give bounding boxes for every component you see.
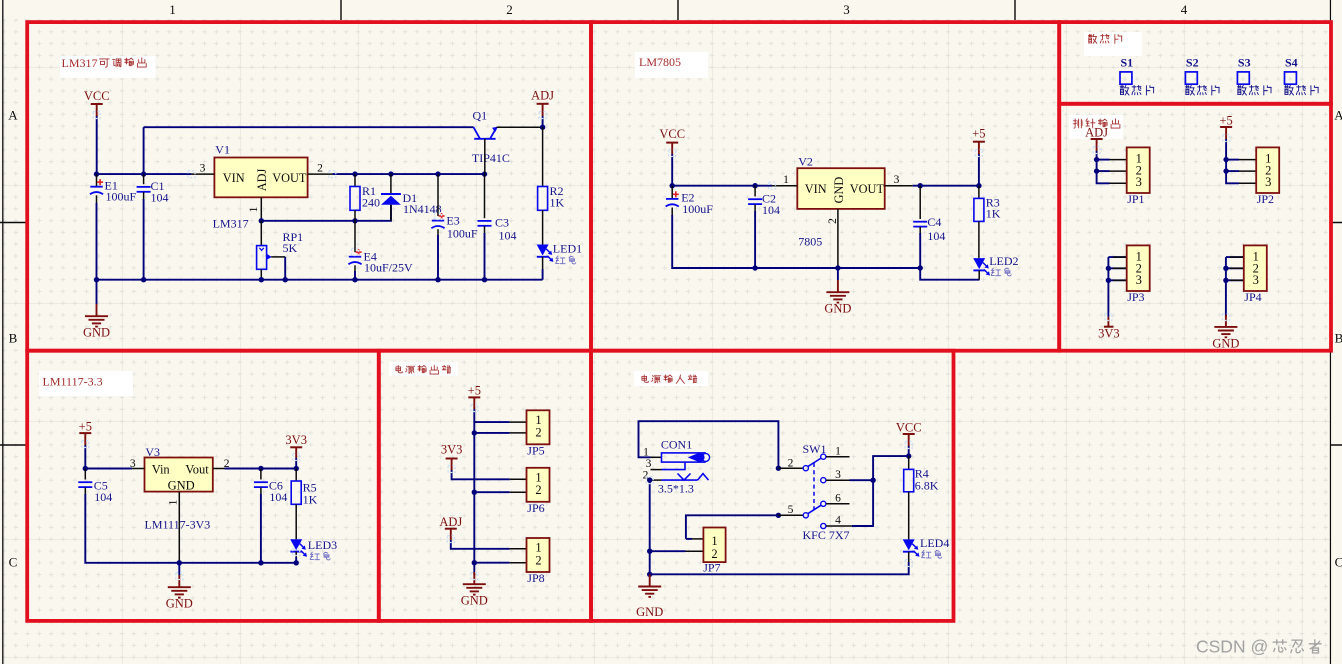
wire ground rail section2 (672, 267, 920, 269)
sheet border right edge (1330, 0, 1332, 664)
svg-text:KFC 7X7: KFC 7X7 (803, 528, 850, 542)
wire ground rail section5 (179, 562, 296, 564)
svg-text:104: 104 (762, 203, 780, 217)
power 3V3 section6 (446, 458, 458, 460)
capacitor C2 (754, 186, 756, 197)
wire ADJ to JP8 pin1 (451, 540, 510, 549)
wire VIN rail section2 (672, 185, 772, 187)
svg-text:3V3: 3V3 (441, 443, 463, 457)
capacitor C4 (919, 186, 921, 219)
svg-text:C: C (1335, 555, 1342, 570)
svg-text:7805: 7805 (798, 235, 822, 249)
node JP3 pin3 junction (1106, 278, 1111, 283)
connector JP8 (510, 548, 527, 550)
section title LM7805 (635, 52, 708, 78)
wire 3V3 stem (295, 458, 297, 469)
node ADJ rail junction (540, 125, 545, 130)
capacitor E1 (96, 174, 98, 186)
wire ground rail section1 (97, 279, 543, 281)
wire JP4 pin2 link (1226, 267, 1244, 269)
wire GND drop section2 (837, 268, 839, 280)
svg-text:1: 1 (248, 206, 260, 212)
svg-text:240: 240 (362, 195, 380, 209)
wire collector top rail (144, 126, 474, 128)
wire JP1 pin2 link (1097, 170, 1110, 172)
svg-text:S3: S3 (1238, 56, 1251, 70)
node V2 gnd junction (835, 265, 840, 270)
node ADJ-R1 junction (352, 218, 357, 223)
svg-text:E3: E3 (446, 213, 459, 227)
svg-text:Q1: Q1 (473, 109, 488, 123)
wire GND bus JP4 (1225, 257, 1227, 317)
svg-text:100uF: 100uF (682, 202, 713, 216)
connector JP7 (692, 538, 703, 540)
svg-text:GND: GND (636, 605, 663, 619)
resistor R5 1K (295, 469, 297, 482)
wire LED4 to ground rail (650, 562, 909, 574)
svg-text:ADJ: ADJ (439, 515, 462, 529)
pin 3 CON1 sleeve (651, 469, 662, 471)
svg-text:GND: GND (166, 597, 193, 611)
wire +5 stem section5 (84, 445, 86, 469)
wire JP8 pin2 link (474, 562, 510, 564)
node JP8 pin2 junction (472, 560, 477, 565)
wire C3 to ground rail (484, 233, 486, 280)
wire +5 bus JP2 (1226, 139, 1239, 183)
red frame LM317 section (27, 22, 591, 351)
node JP3 pin2 junction (1106, 266, 1111, 271)
pin 1 V2 (772, 185, 797, 187)
svg-text:JP4: JP4 (1244, 290, 1261, 304)
svg-text:Vin: Vin (152, 463, 171, 477)
svg-text:A: A (8, 108, 18, 123)
svg-text:LED4: LED4 (920, 536, 949, 550)
svg-text:GND: GND (1212, 336, 1239, 350)
svg-text:1: 1 (835, 446, 841, 458)
svg-text:V3: V3 (145, 445, 160, 459)
svg-text:LED3: LED3 (308, 538, 337, 552)
node VOUT-R1 junction (352, 171, 357, 176)
wire JP3 pin3 link (1108, 279, 1126, 281)
wire VCC stem section7 (908, 446, 910, 456)
wire Vout rail section5 (225, 468, 297, 470)
wire SW1 pin5 to JP7 pin1 (686, 515, 779, 539)
svg-text:104: 104 (927, 229, 945, 243)
node VCC-E2 junction (670, 183, 675, 188)
svg-text:2: 2 (506, 2, 513, 17)
wire E4 to ground rail (354, 271, 356, 280)
connector JP1 (1110, 159, 1127, 161)
red frame pin-header output section (1059, 104, 1331, 351)
resistor R1 240 (354, 174, 356, 186)
svg-text:C4: C4 (927, 215, 941, 229)
node SW1 pin3 tap junction (870, 478, 875, 483)
pin 6 SW1 (821, 501, 826, 506)
section title heatsink (1084, 32, 1142, 56)
svg-text:LM317: LM317 (62, 56, 98, 70)
wire 3V3 bus JP3 (1107, 257, 1109, 317)
ground GND section1 (85, 304, 108, 327)
top ruler zone ticks (341, 0, 1015, 20)
wire 3V3 to JP6 pin1 (452, 470, 510, 479)
svg-text:TIP41C: TIP41C (472, 151, 510, 165)
pin 1 SW1 (821, 454, 826, 459)
LED2 red (978, 221, 980, 258)
capacitor E4 (354, 221, 356, 252)
svg-text:GND: GND (83, 326, 110, 340)
connector JP3 (1113, 256, 1127, 258)
svg-text:5K: 5K (283, 241, 298, 255)
capacitor C6 (260, 469, 262, 480)
svg-text:2: 2 (535, 553, 541, 567)
svg-text:JP6: JP6 (527, 501, 544, 515)
node C2 junction top (752, 183, 757, 188)
wire VCC stem (96, 116, 98, 174)
node SW1 pin2 junction (776, 466, 781, 471)
node ADJ-RP1 junction (259, 218, 264, 223)
wire ADJ bus JP1 (1097, 151, 1110, 183)
svg-text:2: 2 (788, 458, 794, 470)
svg-text:3: 3 (200, 163, 206, 175)
red frame power input section (591, 351, 954, 621)
node +5 R3 junction (976, 183, 981, 188)
wire E3 to ground rail (437, 235, 439, 280)
svg-text:3: 3 (1253, 273, 1259, 287)
node VOUT-E3 junction (435, 171, 440, 176)
wire CON1 pin1 to SW1 pin2 (639, 421, 779, 468)
power ADJ JP1 (1091, 138, 1103, 140)
pin 2 V1 (308, 173, 333, 175)
regulator V1 LM317 (214, 158, 307, 198)
node C4 ground junction (918, 265, 923, 270)
node SW1 pin5 junction (776, 513, 781, 518)
power 3V3 below JP3 (1107, 317, 1109, 327)
svg-text:1K: 1K (986, 206, 1001, 220)
svg-text:JP1: JP1 (1127, 192, 1144, 206)
svg-text:VCC: VCC (84, 89, 110, 103)
hotspot markers (93, 112, 100, 119)
LED4 red (908, 492, 910, 540)
svg-text:6.8K: 6.8K (915, 479, 939, 493)
wire C4 to ground rail and LED2 return (920, 233, 979, 280)
node C6 junction (258, 466, 263, 471)
svg-text:LM1117-3V3: LM1117-3V3 (145, 518, 211, 532)
svg-text:2: 2 (827, 218, 839, 224)
svg-text:S4: S4 (1285, 56, 1298, 70)
node 3V3 R5 junction (294, 466, 299, 471)
wire JP2 pin1 link (1226, 159, 1239, 161)
svg-text:JP3: JP3 (1127, 290, 1144, 304)
wire RP1 wiper to ground rail (284, 257, 286, 280)
wire JP7 pin2 link (650, 550, 686, 552)
wire GND drop section5 (178, 563, 180, 575)
svg-text:3: 3 (843, 2, 850, 17)
wire +5 stem section2 (978, 154, 980, 186)
svg-text:B: B (1335, 331, 1342, 346)
resistor R3 1K (978, 186, 980, 199)
wire JP5 pin2 link (474, 432, 510, 434)
wire top rail to C1 junction (143, 127, 145, 174)
section title pin header output (1069, 115, 1123, 139)
svg-text:GND: GND (824, 302, 851, 316)
node gnd junctions section1 (94, 277, 99, 282)
wire C6 to ground rail (260, 494, 262, 563)
svg-text:104: 104 (499, 228, 517, 242)
wire E1 to ground rail (96, 203, 98, 280)
svg-text:3V3: 3V3 (1098, 326, 1120, 340)
svg-text:S1: S1 (1121, 56, 1134, 70)
svg-text:+5: +5 (1219, 114, 1232, 128)
svg-text:3V3: 3V3 (285, 433, 307, 447)
node gnd junctions section5 (177, 560, 182, 565)
svg-text:S2: S2 (1186, 56, 1199, 70)
LED3 red (295, 504, 297, 539)
red frame LM7805 section (591, 22, 1059, 351)
power VCC section7 (903, 433, 915, 435)
wire C5 to ground rail (85, 494, 179, 563)
power ADJ section6 (445, 528, 457, 530)
svg-text:3: 3 (1136, 273, 1142, 287)
pin 1 V1 ADJ (260, 197, 262, 221)
svg-text:VCC: VCC (896, 421, 922, 435)
svg-text:A: A (1334, 108, 1342, 123)
wire CON1 pin2 to ground (649, 480, 651, 574)
connector JP2 (1239, 159, 1256, 161)
svg-text:5: 5 (788, 504, 794, 516)
wire Vin rail section5 (85, 468, 132, 470)
section title power output port (389, 362, 458, 376)
pin 4 SW1 (821, 523, 826, 528)
diode D1 1N4148 (390, 174, 392, 194)
capacitor C1 (143, 174, 145, 184)
node JP1 pin1 junction (1094, 157, 1099, 162)
connector JP5 (510, 421, 527, 423)
node JP5 pin2 junction (472, 430, 477, 435)
svg-text:V2: V2 (798, 155, 813, 169)
svg-text:4: 4 (835, 515, 841, 527)
pin 5 SW1 (778, 514, 803, 516)
capacitor E3 (437, 174, 439, 216)
switch link dashed SW1 (813, 463, 815, 510)
svg-text:2: 2 (535, 483, 541, 497)
svg-text:4: 4 (1181, 2, 1188, 17)
svg-text:104: 104 (269, 490, 287, 504)
svg-text:LED2: LED2 (989, 254, 1018, 268)
wire JP2 pin2 link (1226, 170, 1239, 172)
svg-text:3: 3 (130, 458, 136, 470)
regulator V2 7805 (797, 168, 884, 209)
power +5 section2 (973, 141, 985, 143)
power +5 JP2 (1220, 126, 1232, 128)
svg-text:100uF: 100uF (106, 190, 137, 204)
node JP4 pin3 junction (1223, 278, 1228, 283)
svg-text:3: 3 (1136, 175, 1142, 189)
svg-text:1K: 1K (550, 195, 565, 209)
node JP1 pin2 junction (1094, 168, 1099, 173)
wire C2 to ground rail (754, 211, 756, 268)
svg-text:2: 2 (535, 426, 541, 440)
svg-text:100uF: 100uF (447, 226, 478, 240)
pin 3 V2 (885, 185, 913, 187)
ground GND below JP4 (1214, 315, 1237, 338)
pin 3 V1 (191, 173, 214, 175)
wire JP6 pin2 link (474, 491, 510, 493)
svg-text:1N4148: 1N4148 (403, 202, 442, 216)
svg-text:1: 1 (168, 499, 180, 505)
svg-text:3.5*1.3: 3.5*1.3 (658, 481, 694, 495)
svg-text:1: 1 (783, 174, 789, 186)
wire VOUT rail section2 (913, 185, 979, 187)
svg-text:2: 2 (711, 547, 717, 561)
capacitor C5 (84, 469, 86, 480)
ground GND section5 (168, 575, 191, 598)
svg-text:VOUT: VOUT (272, 171, 307, 185)
power VCC section2 (666, 142, 678, 144)
wire JP5 pin1 link (474, 421, 510, 423)
svg-text:ADJ: ADJ (255, 169, 269, 192)
svg-text:10uF/25V: 10uF/25V (364, 260, 413, 274)
section title power input port (634, 371, 708, 386)
node ground rail junction section7 (647, 572, 652, 577)
pin 3 V3 (132, 468, 144, 470)
red frame power output section (379, 351, 591, 621)
wire JP4 pin3 link (1226, 279, 1244, 281)
capacitor E2 (671, 186, 673, 199)
section title LM317 adjustable output (60, 56, 156, 78)
svg-text:LM317: LM317 (213, 216, 249, 230)
node JP7 pin2 junction (647, 549, 652, 554)
ground GND section6 (463, 572, 486, 595)
svg-text:3: 3 (835, 469, 841, 481)
wire ADJ net (261, 205, 391, 221)
svg-text:GND: GND (168, 479, 195, 493)
power +5 section5 (79, 432, 91, 434)
svg-text:JP7: JP7 (703, 561, 720, 575)
pin 2 V2 GND (837, 209, 839, 268)
svg-text:3: 3 (894, 174, 900, 186)
resistor R2 1K (542, 127, 544, 186)
node VOUT-D1 junction (388, 171, 393, 176)
svg-text:VIN: VIN (805, 182, 827, 196)
pin 2 CON1 switch contact (651, 479, 662, 481)
svg-text:+5: +5 (79, 420, 92, 434)
node JP2 pin1 junction (1223, 157, 1228, 162)
svg-text:JP5: JP5 (527, 444, 544, 458)
ground GND section2 (826, 280, 849, 303)
svg-text:1: 1 (169, 2, 176, 17)
pin 2 SW1 (778, 467, 803, 469)
section title LM1117-3.3 (39, 371, 133, 396)
svg-text:CON1: CON1 (661, 438, 692, 452)
svg-text:GND: GND (461, 594, 488, 608)
wire GND drop section1 (96, 280, 98, 304)
sheet border left edge (2, 0, 4, 664)
svg-text:V1: V1 (215, 143, 230, 157)
node C2 gnd junction (752, 265, 757, 270)
potentiometer RP1 5K (260, 221, 262, 246)
pin 2 V3 (213, 468, 225, 470)
node CON1 pin2 corner (647, 477, 652, 482)
svg-text:VOUT: VOUT (850, 182, 885, 196)
svg-text:LM1117-3.3: LM1117-3.3 (43, 375, 103, 389)
wire VIN rail (97, 173, 192, 175)
regulator V3 LM1117-3V3 (145, 458, 213, 492)
svg-text:VIN: VIN (223, 171, 245, 185)
pin 1 V3 GND (178, 492, 180, 563)
red frame heatsink section (1059, 22, 1331, 104)
svg-text:3: 3 (646, 458, 652, 470)
node VCC R4 junction (906, 453, 911, 458)
node JP4 pin2 junction (1223, 266, 1228, 271)
svg-text:B: B (9, 331, 18, 346)
wire SW1 pin3 to R4 net (850, 479, 874, 481)
wire SW1 pin4 to VCC net (852, 456, 909, 526)
svg-text:C: C (9, 555, 18, 570)
power +5 section6 (468, 396, 480, 398)
power ADJ section1 (537, 103, 549, 105)
svg-text:LM7805: LM7805 (639, 55, 681, 69)
svg-text:JP8: JP8 (527, 571, 544, 585)
red frame LM1117 section (27, 351, 379, 621)
svg-text:JP2: JP2 (1257, 192, 1274, 206)
svg-text:Vout: Vout (185, 463, 209, 477)
power VCC section1 (91, 103, 103, 105)
right margin zone ticks (1330, 223, 1342, 446)
svg-text:LED1: LED1 (553, 242, 582, 256)
wire VOUT rail (332, 173, 484, 175)
wire +5 bus section6 (473, 409, 475, 575)
node C4 junction top (918, 183, 923, 188)
svg-text:+5: +5 (468, 384, 481, 398)
node VOUT-C3-Q1base junction (482, 171, 487, 176)
svg-text:104: 104 (151, 191, 169, 205)
left margin zone ticks (0, 223, 26, 446)
svg-text:6: 6 (835, 493, 841, 505)
power 3V3 section5 (290, 446, 302, 448)
wire ADJ stem to rail (542, 116, 544, 127)
svg-text:2: 2 (317, 163, 323, 175)
switch arm lower SW1 (808, 505, 822, 514)
svg-text:ADJ: ADJ (1085, 126, 1108, 140)
ground GND section7 (638, 574, 661, 597)
svg-text:+5: +5 (972, 126, 985, 140)
wire JP1 pin1 link (1097, 159, 1110, 161)
svg-text:CSDN @: CSDN @ (1196, 637, 1268, 657)
svg-text:GND: GND (832, 177, 846, 204)
svg-text:ADJ: ADJ (531, 89, 554, 103)
wire E2 to ground rail (672, 215, 755, 268)
wire C1 to ground rail (143, 199, 145, 280)
connector JP6 (510, 478, 527, 480)
svg-text:3: 3 (1265, 175, 1271, 189)
svg-text:1K: 1K (303, 492, 318, 506)
node JP6 pin2 junction (472, 490, 477, 495)
node VCC-E1 junction (94, 171, 99, 176)
svg-text:VCC: VCC (659, 127, 685, 141)
switch arm upper SW1 (808, 458, 822, 467)
wire VCC stem section2 (671, 154, 673, 186)
resistor R4 6.8K (908, 456, 910, 469)
pin 3 SW1 (821, 478, 826, 483)
capacitor C3 (484, 174, 486, 218)
connector JP4 (1230, 256, 1244, 258)
svg-text:1: 1 (643, 447, 649, 459)
node +5 C5 junction (83, 466, 88, 471)
node JP2 pin2 junction (1223, 168, 1228, 173)
svg-text:104: 104 (94, 490, 112, 504)
LED1 red (542, 210, 544, 244)
wire JP3 pin2 link (1108, 267, 1126, 269)
